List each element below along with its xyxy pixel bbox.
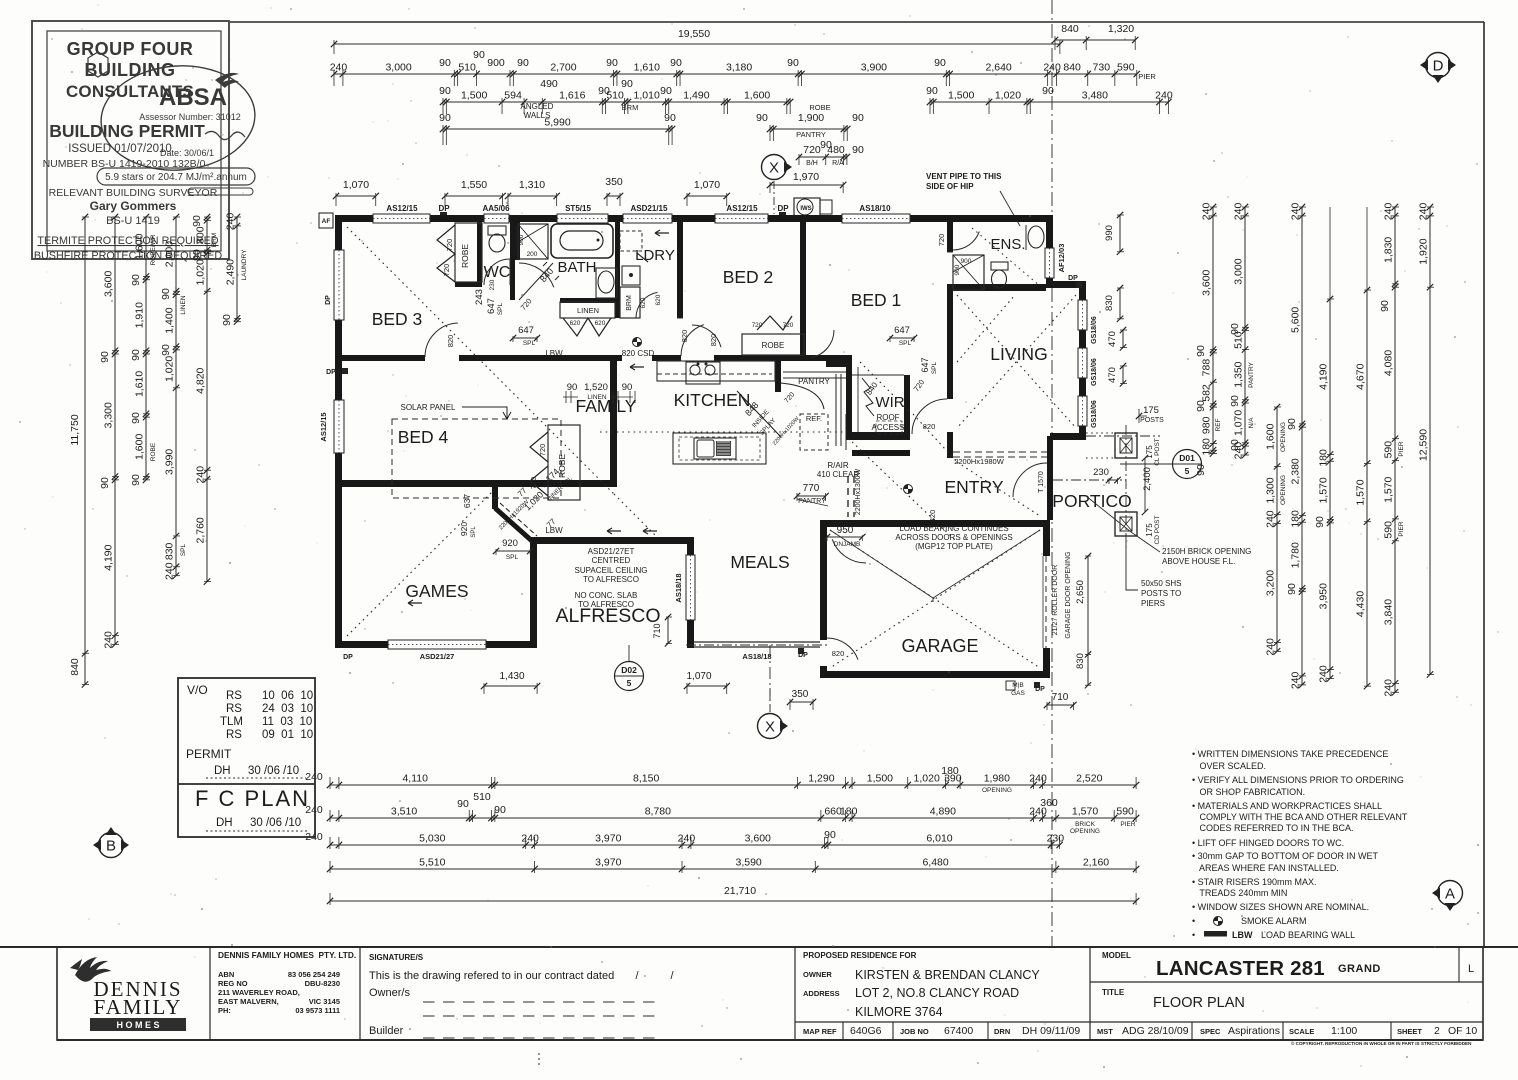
sheet centerline (dash-dot) bbox=[1051, 0, 1053, 947]
svg-text:TLM: TLM bbox=[220, 716, 243, 728]
svg-text:ROBE: ROBE bbox=[809, 103, 830, 112]
right chain r2 bbox=[1244, 207, 1246, 455]
svg-text:• WINDOW SIZES SHOWN ARE NOMIN: • WINDOW SIZES SHOWN ARE NOMINAL. bbox=[1192, 902, 1369, 912]
svg-text:ASD21/15: ASD21/15 bbox=[631, 204, 668, 213]
svg-text:720: 720 bbox=[783, 391, 796, 404]
svg-text:• WRITTEN DIMENSIONS TAKE PREC: • WRITTEN DIMENSIONS TAKE PRECEDENCE bbox=[1192, 749, 1388, 759]
svg-text:• MATERIALS AND WORKPRACTICES: • MATERIALS AND WORKPRACTICES SHALL bbox=[1192, 801, 1382, 811]
solar panel dashed rect + label bbox=[392, 419, 561, 498]
svg-text:980: 980 bbox=[1201, 416, 1213, 434]
svg-text:DP: DP bbox=[325, 295, 332, 305]
svg-text:BRICK: BRICK bbox=[1075, 821, 1096, 828]
garage diagonals bbox=[830, 530, 1040, 668]
svg-text:ANGLED: ANGLED bbox=[521, 102, 554, 111]
garage walls bbox=[820, 520, 827, 640]
svg-text:90: 90 bbox=[660, 85, 672, 97]
svg-text:240: 240 bbox=[521, 833, 539, 845]
svg-text:90: 90 bbox=[852, 144, 864, 156]
svg-text:MAP REF: MAP REF bbox=[803, 1027, 837, 1036]
svg-text:2,000: 2,000 bbox=[164, 241, 176, 267]
svg-text:90: 90 bbox=[1229, 439, 1241, 451]
svg-text:920: 920 bbox=[459, 522, 469, 536]
ens window right bbox=[1045, 248, 1054, 278]
svg-text:X: X bbox=[769, 160, 779, 177]
svg-text:SPL: SPL bbox=[899, 340, 912, 347]
svg-text:PIER: PIER bbox=[1120, 821, 1135, 828]
svg-text:590: 590 bbox=[1116, 806, 1134, 818]
svg-text:647: 647 bbox=[920, 357, 930, 372]
svg-text:EAST MALVERN,: EAST MALVERN, bbox=[218, 997, 279, 1006]
svg-text:F C PLAN: F C PLAN bbox=[195, 786, 310, 811]
svg-text:REF.: REF. bbox=[806, 414, 822, 423]
svg-text:900: 900 bbox=[961, 258, 972, 265]
svg-text:ABSA: ABSA bbox=[159, 84, 227, 111]
svg-text:240: 240 bbox=[195, 466, 207, 484]
svg-text:720: 720 bbox=[752, 322, 763, 329]
dennis family homes logo bbox=[75, 957, 111, 982]
svg-text:ABN: ABN bbox=[218, 970, 234, 979]
svg-text:DP: DP bbox=[326, 369, 336, 376]
svg-text:240: 240 bbox=[1201, 203, 1213, 221]
svg-text:720: 720 bbox=[529, 477, 538, 490]
svg-text:CODES REFERRED TO IN THE BCA.: CODES REFERRED TO IN THE BCA. bbox=[1192, 823, 1354, 833]
svg-text:4,890: 4,890 bbox=[930, 806, 956, 818]
svg-text:DP: DP bbox=[1068, 275, 1078, 282]
top chain row4 bbox=[443, 128, 672, 130]
interior LBW wall horizontal bbox=[342, 355, 425, 361]
roof hip dotted games bbox=[347, 492, 492, 636]
svg-text:BED 1: BED 1 bbox=[851, 290, 902, 310]
svg-text:© COPYRIGHT. REPRODUCTION IN W: © COPYRIGHT. REPRODUCTION IN WHOLE OR IN… bbox=[1291, 1040, 1472, 1046]
svg-text:770: 770 bbox=[803, 483, 820, 494]
svg-text:2,640: 2,640 bbox=[985, 62, 1011, 74]
svg-text:GAMES: GAMES bbox=[405, 581, 468, 601]
svg-text:1,550: 1,550 bbox=[461, 179, 487, 191]
svg-text:ASD21/27: ASD21/27 bbox=[420, 652, 455, 661]
svg-text:KITCHEN: KITCHEN bbox=[674, 390, 751, 410]
svg-text:SPL: SPL bbox=[506, 554, 519, 561]
svg-text:720: 720 bbox=[538, 444, 547, 457]
title block frame bbox=[0, 946, 1518, 948]
svg-text:MEALS: MEALS bbox=[730, 552, 789, 572]
svg-text:240: 240 bbox=[1043, 62, 1061, 74]
shower bath bbox=[518, 224, 548, 259]
svg-text:ROBE: ROBE bbox=[762, 341, 785, 350]
svg-text:90: 90 bbox=[473, 49, 485, 61]
svg-text:720: 720 bbox=[442, 264, 451, 277]
svg-text:920: 920 bbox=[502, 538, 518, 549]
svg-text:240: 240 bbox=[1383, 679, 1395, 697]
svg-text:JOB NO: JOB NO bbox=[900, 1027, 929, 1036]
hall/entry dashed opening bbox=[847, 476, 849, 517]
bottom chain row1 bbox=[330, 784, 1136, 786]
entry front door bbox=[1013, 463, 1047, 497]
svg-text:•: • bbox=[1192, 916, 1195, 926]
svg-text:90: 90 bbox=[1229, 323, 1241, 335]
svg-text:1,430: 1,430 bbox=[499, 671, 524, 682]
svg-text:830: 830 bbox=[164, 542, 176, 560]
svg-text:1,600: 1,600 bbox=[1265, 423, 1277, 449]
svg-text:1,070: 1,070 bbox=[343, 179, 369, 191]
svg-text:90: 90 bbox=[567, 382, 578, 393]
svg-text:1,600: 1,600 bbox=[134, 233, 146, 259]
linen cupboard bbox=[560, 302, 615, 318]
svg-text:480: 480 bbox=[827, 144, 845, 156]
hall bottom wall bbox=[852, 450, 910, 456]
svg-text:/: / bbox=[670, 970, 674, 982]
svg-text:AS18/18: AS18/18 bbox=[742, 652, 771, 661]
svg-text:ADG 28/10/09: ADG 28/10/09 bbox=[1122, 1025, 1189, 1037]
svg-text:647: 647 bbox=[486, 298, 497, 314]
alfresco arrows bbox=[607, 528, 621, 534]
svg-text:637: 637 bbox=[462, 494, 472, 508]
svg-text:5,600: 5,600 bbox=[1290, 307, 1302, 333]
svg-text:RS: RS bbox=[226, 690, 242, 702]
svg-text:3,180: 3,180 bbox=[726, 62, 752, 74]
svg-text:3,590: 3,590 bbox=[736, 857, 762, 869]
svg-text:TO ALFRESCO: TO ALFRESCO bbox=[583, 575, 639, 584]
svg-text:788: 788 bbox=[1201, 359, 1213, 377]
svg-text:PROPOSED RESIDENCE FOR: PROPOSED RESIDENCE FOR bbox=[803, 951, 917, 960]
svg-text:This is the drawing refered to: This is the drawing refered to in our co… bbox=[369, 970, 614, 982]
svg-text:820: 820 bbox=[832, 649, 845, 658]
left chain c1 total 11,750 bbox=[84, 217, 86, 684]
svg-text:50x50 SHS: 50x50 SHS bbox=[1141, 579, 1181, 588]
windows top wall bbox=[373, 214, 430, 223]
svg-text:77: 77 bbox=[516, 486, 529, 499]
ridge dotted family-kitchen bbox=[600, 431, 846, 433]
svg-text:1,600: 1,600 bbox=[744, 90, 770, 102]
svg-text:SMOKE ALARM: SMOKE ALARM bbox=[1241, 916, 1307, 926]
svg-text:R/AIR: R/AIR bbox=[827, 461, 849, 470]
svg-text:730: 730 bbox=[1093, 62, 1111, 74]
svg-text:820 CSD: 820 CSD bbox=[622, 349, 655, 358]
svg-text:BED 3: BED 3 bbox=[372, 309, 423, 329]
svg-text:GARAGE DOOR OPENING: GARAGE DOOR OPENING bbox=[1065, 551, 1072, 638]
svg-text:Assessor Number: 31012: Assessor Number: 31012 bbox=[139, 112, 241, 122]
wir interior bbox=[852, 374, 904, 376]
kitchen sink bbox=[686, 362, 720, 384]
svg-text:KILMORE 3764: KILMORE 3764 bbox=[855, 1005, 943, 1019]
svg-text:3,970: 3,970 bbox=[595, 833, 621, 845]
hall-living door arc bbox=[912, 399, 947, 434]
svg-text:230: 230 bbox=[1047, 833, 1065, 845]
svg-text:820: 820 bbox=[680, 330, 689, 343]
svg-text:90: 90 bbox=[1286, 418, 1298, 430]
svg-text:90: 90 bbox=[934, 57, 946, 69]
770 pantry dim bbox=[797, 495, 826, 497]
svg-text:840: 840 bbox=[538, 266, 555, 284]
ldry/bath wall bbox=[615, 222, 620, 318]
svg-text:90: 90 bbox=[1042, 85, 1054, 97]
svg-text:SCALE: SCALE bbox=[1289, 1027, 1314, 1036]
left chain c5 bbox=[206, 217, 208, 582]
island dim 90 1,520 90 bbox=[563, 396, 578, 398]
marker D bbox=[1426, 53, 1451, 78]
svg-text:1,610: 1,610 bbox=[134, 371, 146, 397]
svg-text:1,900: 1,900 bbox=[798, 112, 824, 124]
svg-text:GROUP FOUR: GROUP FOUR bbox=[67, 39, 194, 59]
right chain r2b openings bbox=[1276, 407, 1278, 651]
svg-text:BATH: BATH bbox=[558, 259, 597, 276]
svg-text:DRN: DRN bbox=[994, 1027, 1010, 1036]
svg-text:L: L bbox=[1468, 963, 1474, 975]
svg-text:90: 90 bbox=[517, 57, 529, 69]
bottom chain row4 bbox=[330, 868, 1136, 870]
entry opening dashed 2200Hx1980W bbox=[953, 451, 1047, 453]
bed3 robe bottom bbox=[455, 282, 482, 287]
svg-text:240: 240 bbox=[164, 562, 176, 580]
svg-text:175: 175 bbox=[1143, 405, 1159, 416]
svg-text:350: 350 bbox=[792, 689, 809, 700]
svg-text:1,070: 1,070 bbox=[694, 179, 720, 191]
wc/robe wall bbox=[477, 222, 482, 285]
svg-text:620: 620 bbox=[595, 320, 606, 327]
svg-text:PIER: PIER bbox=[1398, 441, 1405, 456]
svg-text:1,300: 1,300 bbox=[1265, 477, 1277, 503]
svg-text:LDRY: LDRY bbox=[635, 247, 675, 264]
svg-text:90: 90 bbox=[852, 112, 864, 124]
svg-text:1,910: 1,910 bbox=[134, 302, 146, 328]
svg-text:LOT 2, NO.8 CLANCY ROAD: LOT 2, NO.8 CLANCY ROAD bbox=[855, 986, 1019, 1000]
top chain row2 bbox=[334, 73, 1137, 75]
svg-text:LBW: LBW bbox=[545, 526, 563, 535]
svg-text:CENTRED: CENTRED bbox=[592, 556, 631, 565]
svg-text:CL POST: CL POST bbox=[1154, 438, 1161, 466]
svg-text:90: 90 bbox=[160, 288, 172, 300]
meals south sliding rails bbox=[694, 641, 820, 643]
svg-text:SPL: SPL bbox=[497, 302, 504, 315]
family hall door bbox=[681, 325, 704, 356]
ens toilet bbox=[991, 262, 1008, 270]
svg-text:240: 240 bbox=[1290, 671, 1302, 689]
kitchen bench bbox=[657, 361, 775, 381]
svg-text:90: 90 bbox=[622, 382, 633, 393]
svg-text:720: 720 bbox=[783, 322, 794, 329]
svg-text:2200Hx1020W: 2200Hx1020W bbox=[772, 415, 801, 447]
right chain r5 bbox=[1366, 290, 1368, 686]
svg-text:240: 240 bbox=[225, 213, 237, 231]
svg-text:LINEN: LINEN bbox=[180, 295, 187, 314]
svg-text:5: 5 bbox=[1185, 466, 1190, 476]
svg-text:SUPACEIL CEILING: SUPACEIL CEILING bbox=[575, 566, 648, 575]
svg-text:BUILDING PERMIT: BUILDING PERMIT bbox=[49, 121, 205, 141]
bath/wc wall bbox=[510, 222, 515, 300]
svg-text:720: 720 bbox=[519, 297, 534, 312]
svg-text:4,190: 4,190 bbox=[103, 544, 115, 570]
wc toilet bbox=[488, 226, 506, 235]
svg-text:VENT PIPE TO THIS: VENT PIPE TO THIS bbox=[926, 172, 1002, 181]
games NE stub + diagonal splay wall bbox=[492, 487, 498, 509]
svg-text:OPENING: OPENING bbox=[982, 787, 1012, 794]
svg-text:5,510: 5,510 bbox=[419, 857, 445, 869]
portico pier lower bbox=[1115, 512, 1137, 536]
svg-text:T 1570: T 1570 bbox=[1038, 471, 1045, 493]
right chain r1 bbox=[1212, 207, 1214, 454]
svg-text:DP: DP bbox=[438, 204, 450, 213]
svg-text:90: 90 bbox=[598, 85, 610, 97]
svg-text:510: 510 bbox=[473, 791, 491, 803]
ABSA oval stamp bbox=[98, 61, 259, 175]
svg-text:1:100: 1:100 bbox=[1331, 1025, 1357, 1037]
svg-text:2200Hx1980W: 2200Hx1980W bbox=[954, 457, 1005, 466]
svg-text:• LIFT OFF HINGED DOORS TO WC.: • LIFT OFF HINGED DOORS TO WC. bbox=[1192, 838, 1344, 848]
svg-text:Owner/s: Owner/s bbox=[369, 987, 410, 999]
living right wall bbox=[1079, 281, 1086, 440]
svg-text:RS: RS bbox=[226, 729, 242, 741]
svg-text:240: 240 bbox=[678, 833, 696, 845]
svg-text:PERMIT: PERMIT bbox=[186, 747, 232, 761]
svg-text:N/A: N/A bbox=[1248, 417, 1255, 429]
REF dashed box bbox=[800, 414, 828, 450]
D01 marker bbox=[1173, 450, 1202, 479]
svg-text:AF12/03: AF12/03 bbox=[1057, 244, 1066, 273]
svg-text:1,500: 1,500 bbox=[867, 773, 893, 785]
svg-text:1,500: 1,500 bbox=[461, 90, 487, 102]
svg-text:2,160: 2,160 bbox=[1083, 857, 1109, 869]
top chain row5 B/H R/A bbox=[799, 156, 847, 158]
games arrow + label dims bbox=[408, 600, 422, 606]
D02 marker bbox=[615, 662, 644, 691]
wir left wall bbox=[846, 361, 852, 440]
bed2 left wall bbox=[677, 222, 683, 318]
svg-text:ADDRESS: ADDRESS bbox=[803, 989, 840, 998]
svg-text:90: 90 bbox=[439, 112, 451, 124]
svg-text:D02: D02 bbox=[621, 665, 637, 675]
svg-text:OVER SCALED.: OVER SCALED. bbox=[1192, 761, 1266, 771]
title bottom row line bbox=[795, 1021, 1483, 1023]
svg-text:1,070: 1,070 bbox=[686, 671, 711, 682]
svg-text:1,610: 1,610 bbox=[634, 62, 660, 74]
window games bottom bbox=[388, 640, 486, 649]
svg-text:647: 647 bbox=[518, 325, 534, 336]
svg-text:GARAGE: GARAGE bbox=[901, 636, 978, 656]
svg-text:LAUNDRY: LAUNDRY bbox=[241, 249, 248, 281]
svg-text:DBU-8230: DBU-8230 bbox=[305, 979, 340, 988]
230 / 2,400 dims bbox=[1109, 479, 1118, 481]
svg-text:POSTS TO: POSTS TO bbox=[1141, 589, 1181, 598]
top chain row3 right part bbox=[930, 101, 1168, 103]
bottom chain row5 total bbox=[330, 900, 1136, 902]
710 dim alfresco-meals bbox=[667, 617, 669, 643]
svg-text:3,990: 3,990 bbox=[164, 449, 176, 475]
svg-text:TO ALFRESCO: TO ALFRESCO bbox=[578, 600, 634, 609]
marker X bottom bbox=[758, 714, 783, 739]
svg-text:90: 90 bbox=[99, 477, 111, 489]
garage door arcs bbox=[832, 539, 866, 563]
svg-text:Aspirations: Aspirations bbox=[1228, 1025, 1280, 1037]
ens shower bbox=[953, 255, 984, 290]
svg-text:1,570: 1,570 bbox=[1355, 479, 1367, 505]
svg-text:AREAS WHERE FAN INSTALLED.: AREAS WHERE FAN INSTALLED. bbox=[1192, 863, 1339, 873]
svg-text:ROBE: ROBE bbox=[460, 244, 470, 268]
bottom chain row3 bbox=[330, 844, 1060, 846]
svg-text:3,000: 3,000 bbox=[385, 62, 411, 74]
svg-text:ENS.: ENS. bbox=[990, 236, 1025, 253]
svg-text:ROBE/WR: ROBE/WR bbox=[150, 234, 157, 265]
svg-text:590: 590 bbox=[1383, 441, 1395, 459]
svg-text:• VERIFY ALL DIMENSIONS PRIOR: • VERIFY ALL DIMENSIONS PRIOR TO ORDERIN… bbox=[1192, 775, 1404, 785]
svg-text:MODEL: MODEL bbox=[1102, 951, 1131, 960]
bed4 right wall bbox=[610, 361, 617, 487]
svg-text:640G6: 640G6 bbox=[850, 1025, 882, 1037]
svg-text:3,000: 3,000 bbox=[1233, 258, 1245, 284]
svg-text:OPENING: OPENING bbox=[1280, 475, 1287, 505]
svg-text:LINEN: LINEN bbox=[587, 394, 606, 401]
svg-text:H O M E S: H O M E S bbox=[116, 1020, 159, 1030]
svg-text:BRM: BRM bbox=[211, 233, 218, 247]
svg-text:1,570: 1,570 bbox=[1383, 476, 1395, 502]
bed3 door arc bbox=[425, 323, 458, 357]
ens bottom wall bbox=[947, 284, 1046, 291]
svg-text:1,970: 1,970 bbox=[793, 171, 819, 183]
svg-text:180: 180 bbox=[941, 765, 959, 777]
svg-text:180: 180 bbox=[840, 806, 858, 818]
svg-text:AS12/15: AS12/15 bbox=[386, 204, 418, 213]
svg-text:19,550: 19,550 bbox=[678, 28, 710, 40]
svg-text:582: 582 bbox=[1201, 384, 1213, 402]
svg-text:90: 90 bbox=[787, 57, 799, 69]
svg-text:90: 90 bbox=[1286, 583, 1298, 595]
top chain row3 bbox=[443, 101, 790, 103]
svg-text:1,600: 1,600 bbox=[134, 434, 146, 460]
svg-text:900: 900 bbox=[518, 234, 525, 245]
svg-text:SPEC: SPEC bbox=[1200, 1027, 1221, 1036]
svg-text:REG NO: REG NO bbox=[218, 979, 248, 988]
svg-text:90: 90 bbox=[670, 57, 682, 69]
svg-text:M|B: M|B bbox=[1012, 682, 1023, 689]
bath bottom wall bbox=[515, 222, 520, 260]
portico pier upper bbox=[1115, 433, 1137, 458]
window position dims above top wall bbox=[336, 195, 376, 197]
svg-text:LBW: LBW bbox=[545, 349, 563, 358]
svg-text:240: 240 bbox=[305, 771, 323, 783]
svg-text:REF: REF bbox=[1215, 418, 1222, 431]
svg-text:590: 590 bbox=[1117, 62, 1135, 74]
svg-text:LBW: LBW bbox=[1232, 930, 1253, 940]
svg-text:470: 470 bbox=[1107, 367, 1118, 383]
ens dotted diagonal bbox=[972, 228, 1040, 286]
svg-text:2,760: 2,760 bbox=[195, 517, 207, 543]
svg-text:1,830: 1,830 bbox=[1383, 237, 1395, 263]
ldry door arc bbox=[636, 292, 658, 318]
top chain 1,970 bbox=[770, 184, 843, 186]
svg-text:90: 90 bbox=[439, 85, 451, 97]
stray dotted mark below titleblock bbox=[538, 1053, 540, 1068]
svg-text:AS18/18: AS18/18 bbox=[674, 573, 683, 602]
svg-text:90: 90 bbox=[621, 78, 633, 90]
svg-text:594: 594 bbox=[504, 90, 522, 102]
svg-text:90: 90 bbox=[221, 314, 233, 326]
sheet border right bbox=[1483, 22, 1485, 947]
svg-text:4,080: 4,080 bbox=[1383, 350, 1395, 376]
wir right wall bbox=[904, 375, 910, 440]
ldry trough + dashed appliance bbox=[620, 231, 642, 251]
bed4 robe bbox=[548, 425, 580, 500]
bed4/games wall bbox=[342, 480, 617, 487]
svg-text:90: 90 bbox=[457, 798, 469, 810]
svg-text:620: 620 bbox=[570, 320, 581, 327]
svg-text:2,650: 2,650 bbox=[1075, 580, 1086, 604]
svg-text:AF: AF bbox=[322, 218, 331, 225]
svg-text:DNJAMB: DNJAMB bbox=[834, 541, 861, 548]
svg-text:90: 90 bbox=[130, 349, 142, 361]
svg-text:820: 820 bbox=[928, 510, 937, 523]
svg-text:1,570: 1,570 bbox=[1072, 806, 1098, 818]
svg-text:FLOOR PLAN: FLOOR PLAN bbox=[1153, 995, 1245, 1011]
svg-text:180: 180 bbox=[1318, 449, 1330, 467]
AF box at top-left corner bbox=[319, 213, 333, 228]
